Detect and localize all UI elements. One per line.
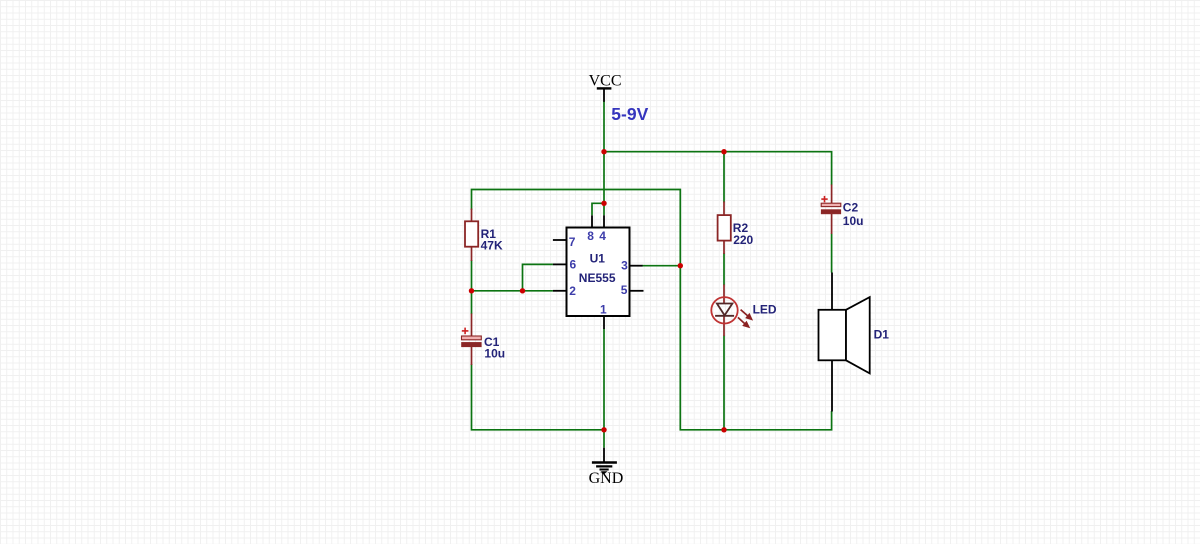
svg-text:47K: 47K [481,239,503,253]
svg-text:5: 5 [621,283,628,297]
svg-text:1: 1 [600,302,607,316]
svg-text:7: 7 [569,235,576,249]
svg-text:VCC: VCC [589,73,622,90]
svg-text:LED: LED [753,303,777,317]
svg-text:C2: C2 [843,201,859,215]
svg-text:220: 220 [733,233,753,247]
svg-text:U1: U1 [590,252,606,266]
svg-text:3: 3 [621,258,628,272]
svg-text:5-9V: 5-9V [611,104,648,124]
svg-text:NE555: NE555 [579,271,616,285]
svg-text:D1: D1 [874,327,890,341]
svg-text:8: 8 [587,229,594,243]
svg-text:GND: GND [589,470,624,487]
svg-text:4: 4 [599,229,606,243]
svg-text:2: 2 [569,284,576,298]
svg-text:10u: 10u [484,347,505,361]
svg-text:10u: 10u [843,214,864,228]
svg-text:6: 6 [570,258,577,272]
